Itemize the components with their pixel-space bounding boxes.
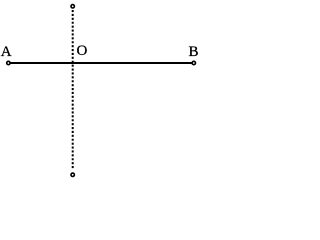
point B marker: [192, 61, 195, 64]
svg-text:A: A: [1, 44, 12, 60]
top endpoint marker of dotted line: [71, 5, 74, 8]
line AB: [11, 62, 192, 64]
point A marker: [7, 61, 10, 64]
dotted vertical line through O: [72, 10, 74, 169]
svg-text:B: B: [189, 44, 199, 60]
bottom endpoint marker of dotted line: [71, 173, 74, 176]
svg-text:O: O: [77, 43, 88, 59]
